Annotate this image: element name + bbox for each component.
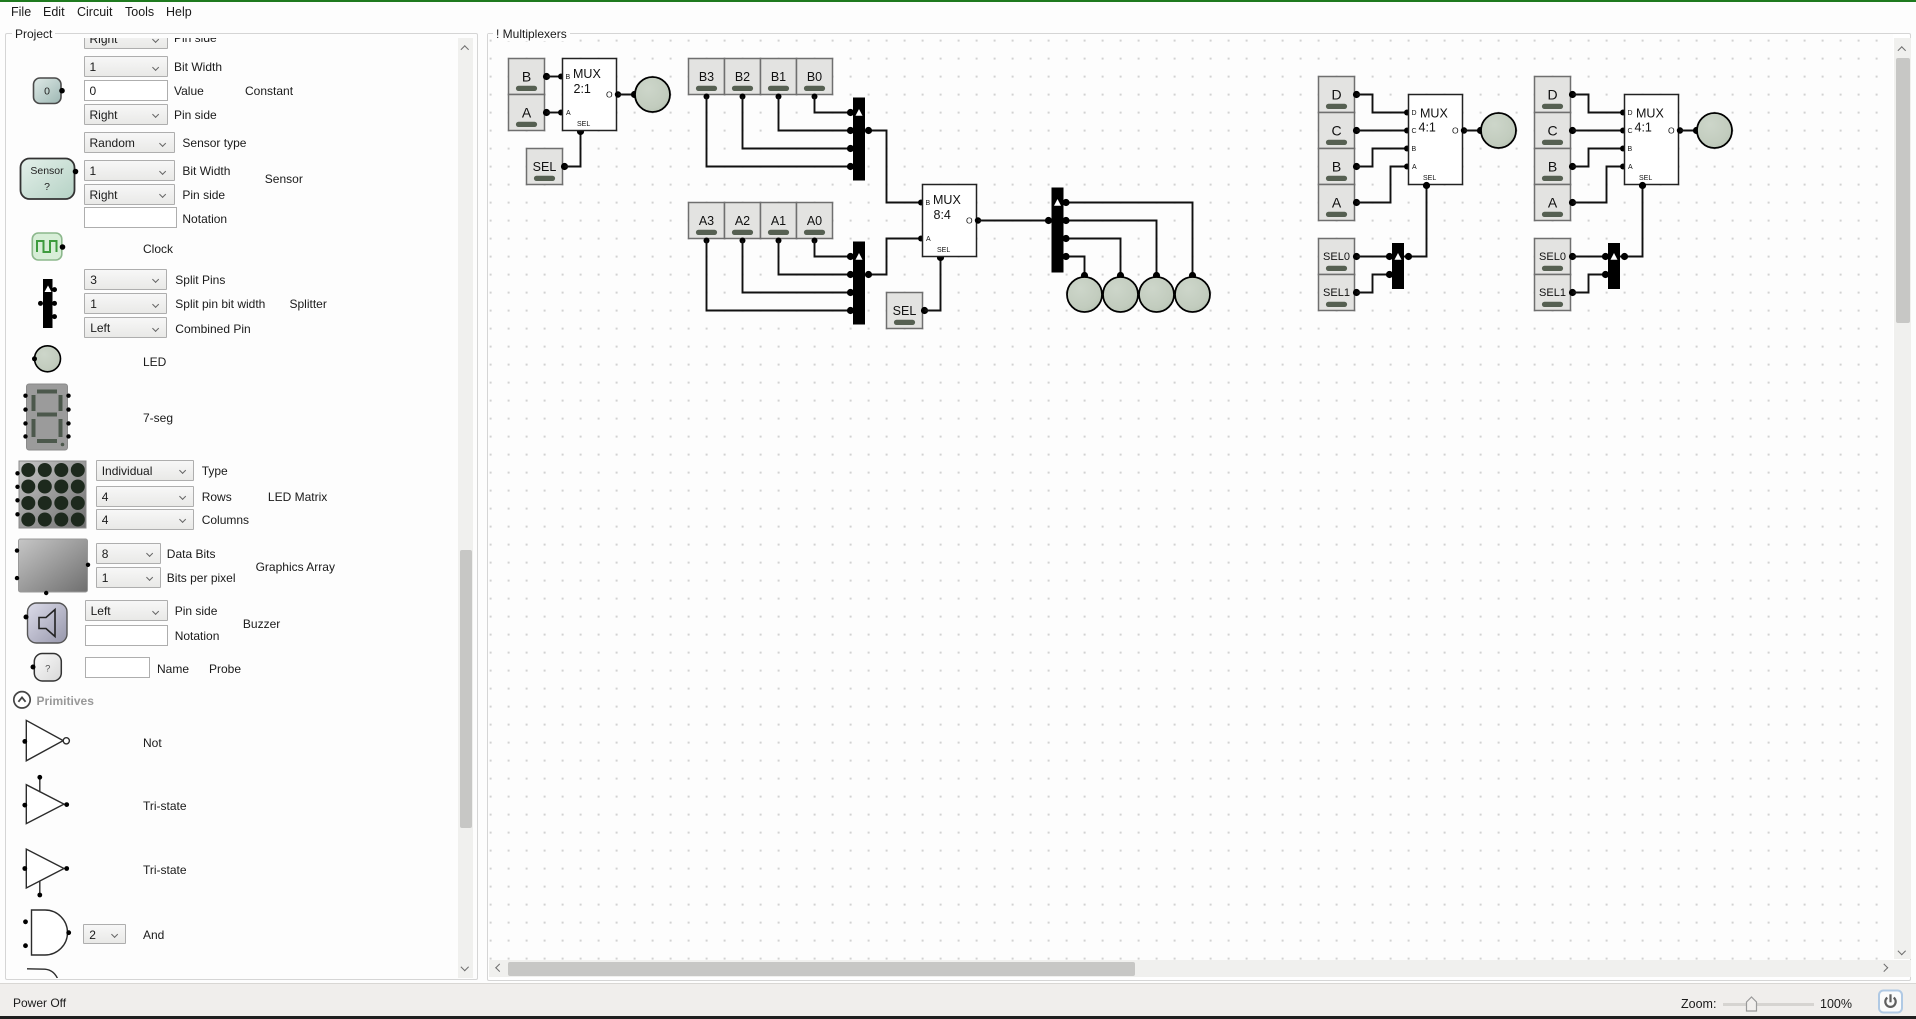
- svg-text:4:1: 4:1: [1635, 121, 1652, 135]
- splitter S2 pin 2 junction: [847, 289, 854, 296]
- svg-text:SEL: SEL: [1639, 175, 1652, 182]
- input pin A2: [725, 203, 761, 244]
- LED5 input port: [1189, 272, 1196, 279]
- svg-text:B0: B0: [807, 70, 822, 84]
- svg-text:SEL1: SEL1: [1539, 287, 1566, 299]
- zoom slider thumb: [1747, 997, 1757, 1011]
- svg-text:0: 0: [44, 86, 50, 98]
- splitter S3 (4-bit split): [1052, 188, 1064, 273]
- LED2 input port: [1081, 272, 1088, 279]
- svg-text:SEL: SEL: [893, 304, 917, 318]
- svg-text:B: B: [1332, 159, 1341, 175]
- wire B1 to splitter S1: [779, 97, 854, 131]
- splitter S5 pin 1 junction: [1602, 271, 1609, 278]
- svg-text:A0: A0: [807, 214, 822, 228]
- wire C to MUX U4: [1573, 130, 1625, 132]
- splitter S2 (4-bit combine): [853, 242, 865, 325]
- wire B3 to splitter S1: [707, 97, 854, 167]
- MUX U3 input B port: [1404, 146, 1410, 152]
- splitter S3 out bit 0 junction: [1062, 253, 1069, 260]
- MUX U2 output O port: [975, 217, 981, 223]
- svg-text:Sensor: Sensor: [30, 165, 64, 177]
- wire SEL2 to MUX 8:4 sel: [925, 258, 941, 311]
- svg-text:4:1: 4:1: [1419, 121, 1436, 135]
- power button: [1879, 991, 1902, 1013]
- clock palette icon: [32, 233, 65, 260]
- svg-text:A: A: [1628, 164, 1633, 171]
- input pin D_U3: [1319, 77, 1360, 113]
- wire SEL0 to splitter S5: [1573, 256, 1607, 258]
- input pin A_U4: [1535, 185, 1576, 221]
- svg-text:8:4: 8:4: [934, 208, 951, 222]
- pin B_U3 output port: [1353, 163, 1360, 170]
- op-amp U1 MUX 2:1 body: [563, 59, 617, 131]
- wire D to MUX U4: [1573, 95, 1625, 113]
- pin SEL output port: [561, 163, 568, 170]
- pin A output port: [543, 109, 550, 116]
- pin D_U3 output port: [1353, 91, 1360, 98]
- LED6: [1481, 113, 1516, 148]
- splitter S1 pin 1 junction: [847, 127, 854, 134]
- op-amp U4 MUX 4:1 body: [1625, 95, 1679, 185]
- svg-text:O: O: [606, 90, 613, 100]
- svg-text:D: D: [1412, 110, 1417, 117]
- svg-text:A2: A2: [735, 214, 750, 228]
- svg-text:B: B: [1548, 159, 1557, 175]
- splitter S4 combined port: [1405, 253, 1412, 260]
- svg-text:MUX: MUX: [1420, 107, 1448, 121]
- MUX U4 input D port: [1620, 110, 1626, 116]
- splitter S4 pin 0 junction: [1386, 253, 1393, 260]
- splitter S4 (2-bit combine): [1392, 243, 1404, 289]
- MUX U1 input B port: [558, 74, 564, 80]
- wire B2 to splitter S1: [743, 97, 854, 149]
- input pin SEL: [527, 149, 568, 185]
- svg-text:B: B: [1628, 146, 1633, 153]
- splitter S3 out bit 1 junction: [1062, 235, 1069, 242]
- wire A to MUX 2:1: [547, 112, 563, 114]
- not gate palette icon: [22, 720, 69, 760]
- input pin B_U3: [1319, 149, 1360, 185]
- svg-text:SEL: SEL: [937, 247, 950, 254]
- MUX U1 input A port: [558, 110, 564, 116]
- svg-text:MUX: MUX: [1636, 107, 1664, 121]
- svg-text:B: B: [522, 69, 531, 85]
- wire B0 to splitter S1: [815, 97, 854, 113]
- input pin B1: [761, 59, 797, 100]
- canvas horizontal scrollbar: [489, 960, 1911, 977]
- MUX U2 input B port: [918, 200, 924, 206]
- input pin SEL0_U4: [1535, 239, 1576, 275]
- MUX U2 SEL port: [937, 254, 944, 261]
- svg-text:C: C: [1412, 128, 1417, 135]
- MUX U4 output O port: [1677, 127, 1683, 133]
- splitter S2 pin 0 junction: [847, 253, 854, 260]
- splitter S1 pin 0 junction: [847, 109, 854, 116]
- wire splitter S4 to MUX U3 sel: [1404, 186, 1427, 257]
- splitter S5 combined port: [1621, 253, 1628, 260]
- wire splitter S3 bit 2 to LED: [1064, 221, 1157, 275]
- op-amp U2 MUX 8:4 body: [923, 185, 977, 257]
- input pin A1: [761, 203, 797, 244]
- pin B_U4 output port: [1569, 163, 1576, 170]
- svg-text:2:1: 2:1: [574, 82, 591, 96]
- MUX U2 input A port: [918, 236, 924, 242]
- splitter S1 pin 2 junction: [847, 145, 854, 152]
- canvas Multiplexers panel: [487, 33, 1911, 981]
- wire B to MUX U3: [1357, 149, 1409, 167]
- LED7 input port: [1693, 127, 1700, 134]
- MUX U3 output O port: [1461, 127, 1467, 133]
- status bar: [0, 983, 1916, 1016]
- tri-state gate palette icon (enable bottom): [22, 849, 69, 897]
- splitter S5 pin 0 junction: [1602, 253, 1609, 260]
- probe palette icon: [31, 654, 62, 682]
- graphics array palette icon: [15, 539, 90, 595]
- input pin SEL0_U3: [1319, 239, 1360, 275]
- splitter S5 (2-bit combine): [1608, 243, 1620, 289]
- svg-text:SEL0: SEL0: [1323, 251, 1350, 263]
- svg-text:C: C: [1547, 123, 1557, 139]
- LED2: [1067, 277, 1102, 312]
- splitter S2 combined port: [865, 271, 872, 278]
- svg-text:A: A: [1332, 195, 1342, 211]
- input pin D_U4: [1535, 77, 1576, 113]
- LED1 input port: [631, 91, 638, 98]
- wire MUX U4 O to LED: [1680, 130, 1697, 132]
- MUX U3 SEL port: [1423, 182, 1430, 189]
- input pin B_U4: [1535, 149, 1576, 185]
- MUX U4 SEL port: [1639, 182, 1646, 189]
- pin B output port: [543, 73, 550, 80]
- wire A0 to splitter S2: [815, 241, 854, 257]
- primitives collapse button: [14, 692, 30, 708]
- pin A_U4 output port: [1569, 199, 1576, 206]
- svg-text:A: A: [1412, 164, 1417, 171]
- svg-text:SEL1: SEL1: [1323, 287, 1350, 299]
- input pin B: [509, 59, 550, 95]
- svg-text:?: ?: [44, 181, 50, 193]
- svg-text:D: D: [1628, 110, 1633, 117]
- svg-text:SEL: SEL: [1423, 175, 1436, 182]
- and gate palette icon: [23, 910, 71, 955]
- svg-text:B: B: [1412, 146, 1417, 153]
- sensor palette icon: [21, 159, 79, 200]
- wire splitter S2 out to MUX 8:4 A: [865, 239, 923, 275]
- wire splitter S1 out to MUX 8:4 B: [865, 131, 923, 203]
- wire A to MUX U3: [1357, 167, 1409, 203]
- svg-text:A3: A3: [699, 214, 714, 228]
- wire A1 to splitter S2: [779, 241, 854, 275]
- input pin A0: [797, 203, 833, 244]
- partial or gate palette icon: [27, 969, 58, 979]
- MUX U3 input A port: [1404, 164, 1410, 170]
- svg-text:O: O: [1668, 126, 1675, 136]
- svg-text:MUX: MUX: [933, 193, 961, 207]
- wire MUX 2:1 O to LED1: [618, 94, 635, 96]
- input pin B3: [689, 59, 725, 100]
- splitter S1 pin 3 junction: [847, 163, 854, 170]
- svg-text:A1: A1: [771, 214, 786, 228]
- LED4 input port: [1153, 272, 1160, 279]
- wire MUX 8:4 O to splitter S3: [978, 220, 1049, 222]
- input pin B2: [725, 59, 761, 100]
- svg-text:MUX: MUX: [573, 67, 601, 81]
- pin A_U3 output port: [1353, 199, 1360, 206]
- svg-text:D: D: [1547, 87, 1557, 103]
- LED4: [1139, 277, 1174, 312]
- zoom slider track: [1723, 1003, 1814, 1006]
- splitter S4 pin 1 junction: [1386, 271, 1393, 278]
- 7-seg palette icon: [23, 384, 70, 450]
- MUX U4 input C port: [1620, 128, 1626, 134]
- MUX U3 input C port: [1404, 128, 1410, 134]
- svg-text:SEL0: SEL0: [1539, 251, 1566, 263]
- svg-text:?: ?: [45, 664, 50, 675]
- wire A2 to splitter S2: [743, 241, 854, 293]
- LED7: [1697, 113, 1732, 148]
- wire SEL1 to splitter S4: [1357, 275, 1391, 293]
- splitter S3 out bit 3 junction: [1062, 199, 1069, 206]
- svg-text:A: A: [566, 110, 571, 117]
- MUX U1 SEL port: [577, 128, 584, 135]
- tri-state gate palette icon (enable top): [22, 775, 69, 824]
- svg-text:B2: B2: [735, 70, 750, 84]
- splitter S3 out bit 2 junction: [1062, 217, 1069, 224]
- svg-text:B3: B3: [699, 70, 714, 84]
- LED palette icon: [32, 346, 61, 372]
- pin SEL1_U3 output port: [1353, 289, 1360, 296]
- canvas vertical scrollbar: [1894, 38, 1911, 959]
- splitter S3 combined port: [1045, 217, 1052, 224]
- splitter palette icon: [38, 279, 57, 328]
- wire MUX U3 O to LED: [1464, 130, 1481, 132]
- buzzer palette icon: [24, 603, 68, 643]
- wire SEL1 to splitter S5: [1573, 275, 1607, 293]
- pin C_U4 output port: [1569, 127, 1576, 134]
- input pin SEL2: [887, 293, 928, 329]
- wire B to MUX 2:1: [547, 76, 563, 78]
- svg-text:B: B: [566, 74, 571, 81]
- wire C to MUX U3: [1357, 130, 1409, 132]
- pin C_U3 output port: [1353, 127, 1360, 134]
- left Project panel: [5, 33, 478, 980]
- svg-text:A: A: [522, 105, 532, 121]
- input pin C_U4: [1535, 113, 1576, 149]
- svg-text:C: C: [1628, 128, 1633, 135]
- wire D to MUX U3: [1357, 95, 1409, 113]
- LED5: [1175, 277, 1210, 312]
- svg-text:B: B: [926, 200, 931, 207]
- svg-text:D: D: [1331, 87, 1341, 103]
- input pin B0: [797, 59, 833, 100]
- svg-text:B1: B1: [771, 70, 786, 84]
- svg-text:O: O: [966, 216, 973, 226]
- input pin A_U3: [1319, 185, 1360, 221]
- constant palette icon: [34, 78, 65, 104]
- wire splitter S5 to MUX U4 sel: [1620, 186, 1643, 257]
- wire A3 to splitter S2: [707, 241, 854, 311]
- svg-text:A: A: [926, 236, 931, 243]
- input pin SEL1_U3: [1319, 275, 1360, 311]
- input pin C_U3: [1319, 113, 1360, 149]
- wire splitter S3 bit 3 to LED: [1064, 203, 1193, 275]
- wire splitter S3 bit 1 to LED: [1064, 239, 1121, 275]
- input pin A: [509, 95, 550, 131]
- input pin A3: [689, 203, 725, 244]
- svg-text:O: O: [1452, 126, 1459, 136]
- op-amp U3 MUX 4:1 body: [1409, 95, 1463, 185]
- left panel scrollbar: [458, 38, 473, 978]
- pin SEL2 output port: [921, 307, 928, 314]
- wire A to MUX U4: [1573, 167, 1625, 203]
- LED matrix palette icon: [15, 461, 86, 528]
- input pin SEL1_U4: [1535, 275, 1576, 311]
- MUX U4 input B port: [1620, 146, 1626, 152]
- wire SEL0 to splitter S4: [1357, 256, 1391, 258]
- MUX U3 input D port: [1404, 110, 1410, 116]
- pin SEL1_U4 output port: [1569, 289, 1576, 296]
- LED3 input port: [1117, 272, 1124, 279]
- pin SEL0_U4 output port: [1569, 253, 1576, 260]
- LED3: [1103, 277, 1138, 312]
- MUX U4 input A port: [1620, 164, 1626, 170]
- splitter S2 pin 1 junction: [847, 271, 854, 278]
- svg-text:A: A: [1548, 195, 1558, 211]
- splitter S2 pin 3 junction: [847, 307, 854, 314]
- wire SEL to MUX 2:1 sel: [565, 132, 581, 167]
- pin SEL0_U3 output port: [1353, 253, 1360, 260]
- wire splitter S3 bit 0 to LED: [1064, 257, 1085, 275]
- pin D_U4 output port: [1569, 91, 1576, 98]
- wire B to MUX U4: [1573, 149, 1625, 167]
- LED6 input port: [1477, 127, 1484, 134]
- MUX U1 output O port: [615, 91, 621, 97]
- splitter S1 combined port: [865, 127, 872, 134]
- svg-text:SEL: SEL: [577, 121, 590, 128]
- svg-text:C: C: [1331, 123, 1341, 139]
- splitter S1 (4-bit combine): [853, 98, 865, 181]
- LED1: [635, 77, 670, 112]
- svg-text:SEL: SEL: [533, 160, 557, 174]
